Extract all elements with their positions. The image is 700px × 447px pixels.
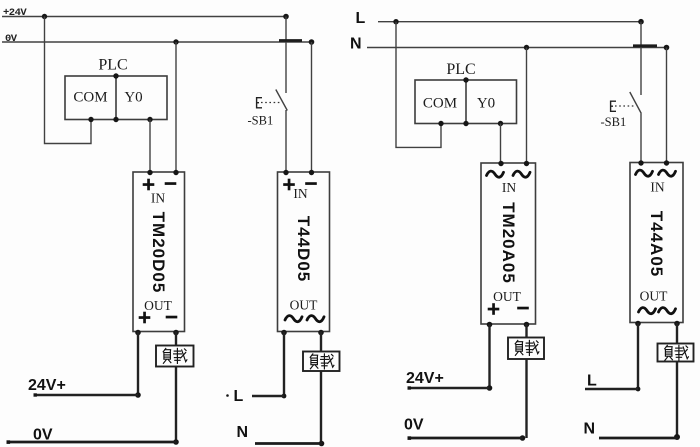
label 24V+ (right) — [406, 370, 444, 387]
terminal IN- T44D05 — [309, 170, 314, 175]
node N junction at SSR3 — [524, 45, 529, 50]
node divider bottom (right) — [463, 121, 468, 126]
wire SB1 to SSR4 IN~1 — [640, 114, 642, 163]
svg-text:N: N — [237, 424, 249, 441]
label 0V (left bottom) — [33, 427, 53, 444]
svg-text:N: N — [350, 36, 362, 53]
terminal IN~2 T44A05 — [664, 160, 669, 165]
wire LOAD4 to N line — [676, 362, 678, 438]
wire Y0 to SSR1 IN+ — [149, 120, 151, 173]
crossover hop over N rail — [633, 44, 657, 47]
SSR module TM20D05 body — [133, 172, 185, 332]
node 0V return junction — [173, 439, 179, 445]
svg-text:T44D05: T44D05 — [294, 216, 313, 282]
wire SB1 to SSR2 IN+ — [285, 110, 287, 172]
wire +24V down to SB1 — [285, 17, 287, 94]
label OUT TM20D05 — [144, 298, 172, 313]
ac mark IN-1 TM20A05 — [487, 171, 504, 177]
label 0V (right bottom) — [404, 417, 424, 434]
ac mark OUT-2 T44A05 — [659, 308, 676, 314]
0V return line (left) — [7, 440, 177, 444]
terminal IN~1 T44A05 — [638, 160, 643, 165]
label T44D05 — [294, 216, 313, 282]
terminal IN+ T44D05 — [283, 170, 288, 175]
svg-text:T44A05: T44A05 — [647, 211, 666, 277]
label OUT T44D05 — [290, 298, 318, 313]
label IN TM20A05 — [502, 180, 516, 195]
node L rail end — [638, 19, 644, 25]
label L (left) — [226, 388, 243, 405]
node 0V return junction (right) — [520, 435, 526, 441]
label IN T44A05 — [650, 180, 664, 195]
svg-text:PLC: PLC — [446, 61, 475, 78]
PLC box (right) — [415, 80, 517, 124]
pushbutton SB1 actuator link (right) — [615, 105, 634, 107]
svg-text:IN: IN — [650, 180, 664, 195]
terminal OUT+ TM20D05 — [135, 330, 141, 336]
L supply line (left) — [252, 395, 284, 397]
svg-text:0V: 0V — [33, 427, 53, 444]
SSR module T44D05 body — [278, 172, 330, 332]
svg-text:-SB1: -SB1 — [601, 115, 627, 129]
wire L to COM (right) — [396, 22, 441, 148]
plus mark OUT TM20D05 — [139, 312, 151, 324]
plus mark OUT TM20A05 — [488, 303, 500, 315]
label TM20D05 — [149, 212, 168, 294]
L rail (right) — [378, 21, 641, 23]
label N (right bottom) — [584, 421, 596, 438]
wire T44D05 OUT~2 to load — [320, 332, 322, 353]
pushbutton SB1 actuator bracket (right) — [611, 101, 616, 111]
node COM pin (right) — [438, 121, 443, 126]
ac mark IN-2 T44A05 — [659, 170, 676, 176]
plus mark IN T44D05 — [283, 179, 295, 191]
+24V rail — [2, 16, 286, 18]
svg-text:TM20A05: TM20A05 — [499, 202, 518, 284]
wire SSR1 OUT- to load — [175, 332, 177, 347]
svg-text:L: L — [587, 373, 597, 390]
terminal IN~1 TM20A05 — [498, 161, 503, 166]
minus mark OUT TM20D05 — [166, 316, 178, 319]
terminal IN~2 TM20A05 — [524, 161, 529, 166]
node L junction (left) — [282, 394, 287, 399]
node +24V rail end — [283, 14, 289, 20]
SSR module TM20A05 body — [481, 163, 536, 324]
svg-text:L: L — [234, 388, 244, 405]
pushbutton SB1 actuator bracket (left) — [257, 98, 262, 108]
svg-text:OUT: OUT — [290, 298, 318, 313]
N return line (right) — [599, 437, 678, 440]
N rail (right) — [367, 47, 667, 49]
node divider bottom — [113, 117, 118, 122]
pin Y0 (left) — [124, 90, 142, 106]
wire N end down to SSR4 IN~2 — [666, 48, 668, 163]
N return line (left) — [255, 442, 322, 445]
svg-text:0V: 0V — [404, 417, 424, 434]
node Y0 pin — [147, 117, 152, 122]
svg-text:24V+: 24V+ — [406, 370, 444, 387]
svg-text:OUT: OUT — [493, 289, 521, 304]
terminal OUT~2 T44D05 — [318, 330, 324, 336]
label 0V — [5, 33, 18, 45]
svg-text:OUT: OUT — [144, 298, 172, 313]
label N rail — [350, 36, 362, 53]
node 24V+ junction — [135, 392, 141, 398]
plus mark IN TM20D05 — [143, 179, 155, 191]
svg-text:IN: IN — [151, 191, 165, 206]
wire SSR1 OUT+ to 24V+ line — [137, 332, 139, 396]
wire 0V end down to SSR2 IN- — [311, 42, 313, 172]
label OUT T44A05 — [640, 289, 668, 304]
wire T44A05 OUT~2 to load — [676, 323, 678, 344]
svg-text:Y0: Y0 — [124, 90, 142, 106]
svg-text:COM: COM — [423, 96, 457, 112]
node L junction (right) — [636, 387, 641, 392]
crossover hop over 0V rail — [279, 39, 302, 42]
node 0V junction at SSR1 — [173, 39, 178, 44]
node PLC top divider (right) — [463, 77, 468, 82]
node 0V rail end — [309, 39, 315, 45]
wire LOAD2 to N line — [320, 371, 322, 444]
svg-text:PLC: PLC — [98, 57, 127, 74]
svg-text:OUT: OUT — [640, 289, 668, 304]
svg-text:IN: IN — [502, 180, 516, 195]
wire T44A05 OUT~1 to L line — [637, 323, 639, 389]
load box LOAD3 — [508, 338, 544, 360]
node COM pin — [88, 117, 93, 122]
label T44A05 — [647, 211, 666, 277]
svg-text:N: N — [584, 421, 596, 438]
pushbutton SB1 actuator link (left) — [261, 102, 280, 104]
pushbutton SB1 blade (left) — [276, 90, 288, 111]
24V+ supply line (left) — [34, 393, 139, 396]
svg-text:IN: IN — [293, 186, 307, 201]
label OUT TM20A05 — [493, 289, 521, 304]
wire LOAD3 to 0V line — [525, 359, 527, 438]
label -SB1 (left) — [248, 114, 274, 128]
terminal OUT~1 T44A05 — [635, 321, 641, 327]
node 24V+ junction (right) — [487, 385, 493, 391]
wire LOAD1 to 0V line — [175, 367, 177, 443]
terminal OUT+ TM20A05 — [487, 322, 493, 328]
0V return line (right) — [408, 436, 524, 440]
label L rail — [356, 10, 366, 27]
pin Y0 (right) — [477, 96, 495, 112]
terminal OUT~2 T44A05 — [674, 321, 680, 327]
label L (right) — [587, 373, 597, 390]
terminal OUT~1 T44D05 — [281, 330, 287, 336]
label N (left bottom) — [237, 424, 249, 441]
label +24V — [3, 7, 27, 19]
load box LOAD4 — [658, 344, 694, 362]
ac mark OUT-2 T44D05 — [307, 316, 324, 322]
label PLC (right) — [446, 61, 475, 78]
PLC box (left) — [65, 76, 167, 120]
24V+ supply line (right) — [408, 386, 490, 389]
label IN TM20D05 — [151, 191, 165, 206]
wire TM20A05 OUT- to load — [525, 324, 527, 338]
svg-text:-SB1: -SB1 — [248, 114, 274, 128]
node L/PLC junction — [393, 19, 398, 24]
label PLC (left) — [98, 57, 127, 74]
wire N down to SSR3 IN~2 — [526, 48, 528, 164]
node PLC top divider — [113, 73, 118, 78]
terminal IN+ TM20D05 — [147, 170, 152, 175]
load box LOAD2 — [303, 352, 340, 372]
wire +24V to COM — [45, 17, 92, 144]
wire Y0 to SSR3 IN~1 — [500, 124, 502, 164]
pushbutton SB1 blade (right) — [630, 92, 642, 114]
wire 0V down to SSR1 IN- — [175, 42, 177, 172]
terminal OUT- TM20A05 — [524, 322, 530, 328]
ac mark OUT-1 T44D05 — [285, 316, 302, 322]
wire TM20A05 OUT+ to 24V+ line — [488, 324, 490, 388]
L supply line (right) — [585, 388, 638, 390]
node N return junction (right) — [674, 434, 680, 440]
label -SB1 (right) — [601, 115, 627, 129]
svg-text:TM20D05: TM20D05 — [149, 212, 168, 294]
ac mark IN-2 TM20A05 — [513, 171, 530, 177]
terminal OUT- TM20D05 — [173, 330, 179, 336]
label TM20A05 — [499, 202, 518, 284]
svg-text:L: L — [356, 10, 366, 27]
SSR module T44A05 body — [630, 163, 683, 323]
label IN T44D05 — [293, 186, 307, 201]
wire T44D05 OUT~1 to L line — [283, 332, 285, 397]
node N return junction (left) — [319, 441, 325, 447]
minus mark IN TM20D05 — [165, 182, 177, 185]
ac mark OUT-1 T44A05 — [639, 308, 656, 314]
svg-text:0V: 0V — [5, 33, 18, 45]
svg-text:24V+: 24V+ — [28, 377, 66, 394]
terminal IN- TM20D05 — [173, 170, 178, 175]
node Y0 pin (right) — [498, 121, 503, 126]
minus mark OUT TM20A05 — [517, 307, 529, 310]
label 24V+ (left) — [28, 377, 66, 394]
svg-text:COM: COM — [73, 90, 107, 106]
wire L down to SB1 (right) — [640, 22, 642, 95]
pin COM (right) — [423, 96, 457, 112]
ac mark IN-1 T44A05 — [636, 170, 653, 176]
node N rail end — [664, 45, 670, 51]
load box LOAD1 — [156, 346, 194, 367]
minus mark IN T44D05 — [305, 182, 317, 185]
svg-text:+24V: +24V — [3, 7, 27, 19]
pin COM (left) — [73, 90, 107, 106]
node +24V/PLC junction — [42, 14, 47, 19]
0V rail — [2, 41, 312, 43]
svg-text:Y0: Y0 — [477, 96, 495, 112]
